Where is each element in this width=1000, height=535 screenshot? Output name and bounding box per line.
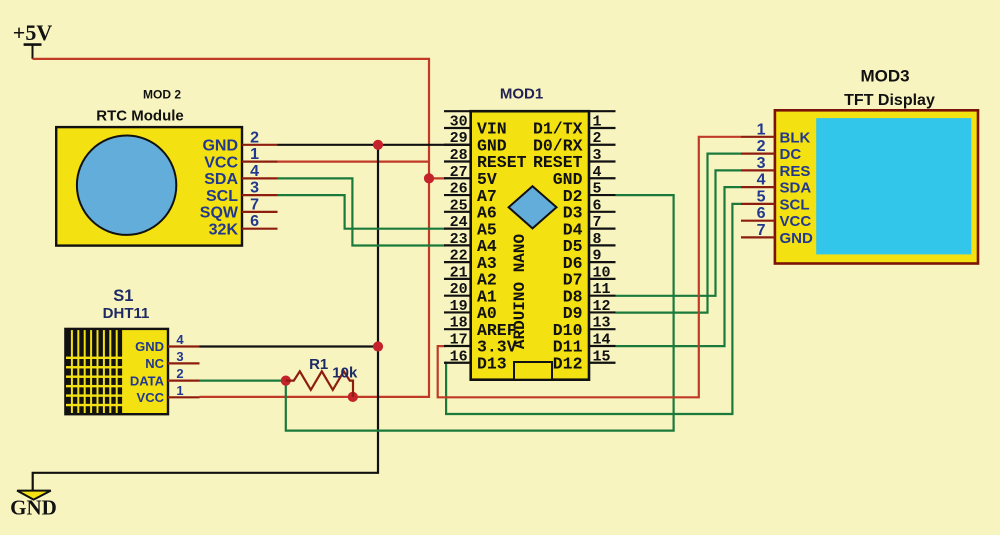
wire DHT11 DATA to R1 junction	[200, 380, 286, 382]
MOD1 bottom notch tab	[514, 362, 552, 380]
svg-text:23: 23	[450, 231, 468, 248]
svg-text:5: 5	[593, 181, 602, 198]
module MOD1 Arduino Nano body	[471, 111, 589, 380]
svg-text:SDA: SDA	[204, 171, 238, 188]
wire DHT11 GND to GND rail	[200, 345, 379, 347]
sensor S1 DHT11 body	[65, 329, 168, 414]
svg-text:VCC: VCC	[137, 390, 165, 405]
wire +5V rail stub to Arduino pin 27 5V	[429, 177, 446, 179]
svg-text:8: 8	[593, 231, 602, 248]
junction dot at R1 right / +5V rail	[348, 392, 358, 402]
svg-text:11: 11	[593, 281, 611, 298]
svg-text:15: 15	[593, 348, 611, 365]
svg-text:29: 29	[450, 130, 468, 147]
svg-text:TFT Display: TFT Display	[844, 92, 935, 109]
svg-text:7: 7	[593, 214, 602, 231]
svg-text:MOD3: MOD3	[860, 66, 909, 85]
svg-text:5: 5	[757, 188, 766, 205]
svg-text:4: 4	[757, 172, 766, 189]
MOD1 blue diamond	[509, 186, 557, 228]
power symbol +5V	[13, 20, 53, 59]
DHT11 pin numbers 4 3 2 1	[176, 332, 184, 398]
junction dot GND rail at DHT11 GND row	[373, 341, 383, 351]
svg-text:4: 4	[250, 163, 259, 180]
svg-text:BLK: BLK	[780, 129, 811, 146]
svg-text:MOD 2: MOD 2	[143, 88, 181, 102]
svg-text:4: 4	[176, 332, 184, 347]
svg-text:20: 20	[450, 281, 468, 298]
svg-text:6: 6	[757, 205, 766, 222]
svg-text:18: 18	[450, 315, 468, 332]
svg-text:21: 21	[450, 264, 468, 281]
TFT pin stubs	[741, 137, 775, 238]
MOD1 left pin numbers 30-16	[450, 113, 468, 365]
svg-text:RES: RES	[780, 163, 811, 180]
svg-text:3: 3	[593, 147, 602, 164]
svg-text:3: 3	[250, 180, 259, 197]
svg-text:GND: GND	[202, 138, 238, 155]
junction dot at Arduino 5V pin	[424, 173, 434, 183]
DHT11 pin labels GND NC DATA VCC	[130, 339, 165, 405]
svg-text:DC: DC	[780, 146, 802, 163]
svg-text:2: 2	[757, 138, 766, 155]
svg-text:13: 13	[593, 315, 611, 332]
MOD1 right pin labels	[533, 120, 583, 374]
svg-text:SCL: SCL	[206, 188, 238, 205]
wire Arduino 3.3V to TFT BLK	[438, 137, 741, 398]
svg-text:RTC Module: RTC Module	[96, 108, 184, 125]
svg-text:6: 6	[250, 213, 259, 230]
TFT pin numbers 1-7	[757, 121, 766, 239]
svg-text:S1: S1	[113, 287, 133, 305]
wire RTC GND to Arduino pin 29 GND	[278, 144, 471, 146]
svg-text:26: 26	[450, 181, 468, 198]
wire Arduino D8 to TFT RES	[616, 170, 742, 295]
TFT pin labels BLK DC RES SDA SCL VCC GND	[780, 129, 814, 247]
wire Arduino D9 to TFT DC	[616, 154, 742, 313]
svg-text:7: 7	[757, 222, 766, 239]
svg-text:28: 28	[450, 147, 468, 164]
svg-text:17: 17	[450, 331, 468, 348]
wire DHT11 DATA / R1 left to Arduino D2	[286, 195, 674, 431]
svg-text:6: 6	[593, 197, 602, 214]
MOD1 right pin ladder lines	[589, 111, 616, 363]
svg-text:25: 25	[450, 197, 468, 214]
svg-text:27: 27	[450, 164, 468, 181]
svg-text:GND: GND	[10, 496, 57, 520]
wire RTC SDA to Arduino A4	[278, 178, 446, 245]
svg-text:2: 2	[176, 366, 183, 381]
ground symbol GND	[10, 491, 57, 520]
wire +5V rail (+5V symbol to R1/DHT VCC row, via Arduino 5V)	[33, 59, 430, 397]
svg-text:10k: 10k	[332, 364, 358, 381]
svg-text:SCL: SCL	[780, 196, 810, 213]
DHT11 grid pattern	[66, 330, 125, 413]
svg-text:22: 22	[450, 248, 468, 265]
module MOD2 RTC body	[56, 127, 242, 246]
svg-text:D12: D12	[553, 354, 583, 373]
junction dot DATA / R1 left	[281, 376, 291, 386]
RTC battery circle	[77, 136, 176, 235]
svg-text:GND: GND	[135, 339, 164, 354]
MOD1 left pin labels	[477, 120, 527, 374]
svg-text:12: 12	[593, 298, 611, 315]
svg-text:2: 2	[593, 130, 602, 147]
TFT screen	[816, 118, 971, 254]
RTC pin numbers 2 1 4 3 7 6	[250, 129, 259, 230]
svg-text:DATA: DATA	[130, 373, 165, 388]
resistor R1 zigzag	[286, 371, 353, 397]
svg-text:+5V: +5V	[13, 20, 53, 45]
svg-text:3: 3	[757, 155, 766, 172]
DHT11 pin stubs	[168, 347, 200, 398]
svg-text:9: 9	[593, 248, 602, 265]
svg-text:ARDUINO NANO: ARDUINO NANO	[511, 233, 529, 349]
svg-text:19: 19	[450, 298, 468, 315]
svg-text:D13: D13	[477, 354, 507, 373]
svg-text:30: 30	[450, 113, 468, 130]
svg-text:VCC: VCC	[780, 213, 812, 230]
svg-text:7: 7	[250, 196, 259, 213]
svg-text:1: 1	[176, 383, 183, 398]
MOD1 right pin numbers 1-15	[593, 113, 611, 365]
svg-text:DHT11: DHT11	[103, 305, 150, 322]
svg-text:VCC: VCC	[204, 154, 238, 171]
svg-text:10: 10	[593, 264, 611, 281]
MOD1 left pin ladder lines	[444, 111, 471, 363]
wire RTC VCC to +5V rail	[278, 161, 430, 163]
svg-text:1: 1	[250, 146, 259, 163]
RTC pin labels GND VCC SDA SCL SQW 32K	[200, 138, 239, 239]
svg-text:1: 1	[757, 121, 766, 138]
svg-text:14: 14	[593, 331, 611, 348]
wire GND vertical rail down to ground	[33, 145, 378, 492]
svg-text:MOD1: MOD1	[500, 86, 543, 103]
svg-text:32K: 32K	[209, 222, 239, 239]
wire Arduino D13 to TFT SCL	[445, 204, 741, 414]
svg-text:R1: R1	[309, 356, 328, 373]
junction dot GND rail at Arduino GND row	[373, 140, 383, 150]
svg-text:2: 2	[250, 129, 259, 146]
svg-text:16: 16	[450, 348, 468, 365]
svg-text:3: 3	[176, 349, 183, 364]
RTC pin stubs	[242, 145, 278, 229]
svg-text:NC: NC	[145, 356, 164, 371]
svg-text:SDA: SDA	[780, 180, 812, 197]
wire RTC SCL to Arduino A5	[278, 195, 446, 229]
svg-text:SQW: SQW	[200, 205, 239, 222]
svg-text:4: 4	[593, 164, 602, 181]
svg-text:1: 1	[593, 113, 602, 130]
wire Arduino D11 to TFT SDA	[616, 187, 742, 346]
module MOD3 TFT body	[775, 110, 978, 263]
svg-text:GND: GND	[780, 230, 814, 247]
svg-text:24: 24	[450, 214, 468, 231]
